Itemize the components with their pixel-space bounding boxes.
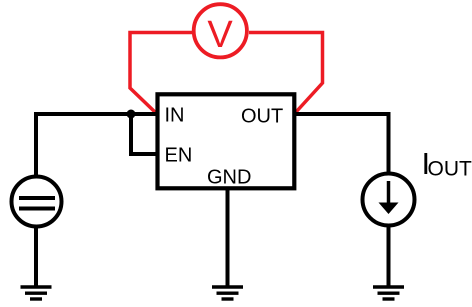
svg-text:GND: GND xyxy=(207,167,251,189)
svg-text:OUT: OUT xyxy=(428,158,472,181)
wire GND pin xyxy=(226,188,230,287)
wire IN net xyxy=(36,114,158,175)
ground left xyxy=(21,287,52,299)
ground right xyxy=(373,287,404,299)
svg-text:IN: IN xyxy=(165,105,185,127)
wire EN net xyxy=(131,114,158,154)
voltmeter V1 xyxy=(194,4,247,57)
svg-text:V: V xyxy=(207,14,233,56)
svg-text:EN: EN xyxy=(165,145,193,167)
node junction IN/EN xyxy=(127,110,136,119)
voltage source V2 xyxy=(12,177,62,227)
wire source V to ground xyxy=(34,228,38,287)
wire red voltmeter left branch xyxy=(130,33,192,114)
wire red voltmeter right branch xyxy=(249,33,323,113)
ground middle xyxy=(212,287,243,299)
wire OUT net xyxy=(294,114,389,172)
op-amp U1 regulator body xyxy=(158,94,295,188)
current source I1 xyxy=(363,174,415,226)
svg-text:OUT: OUT xyxy=(241,106,283,128)
wire source I to ground xyxy=(387,226,391,287)
